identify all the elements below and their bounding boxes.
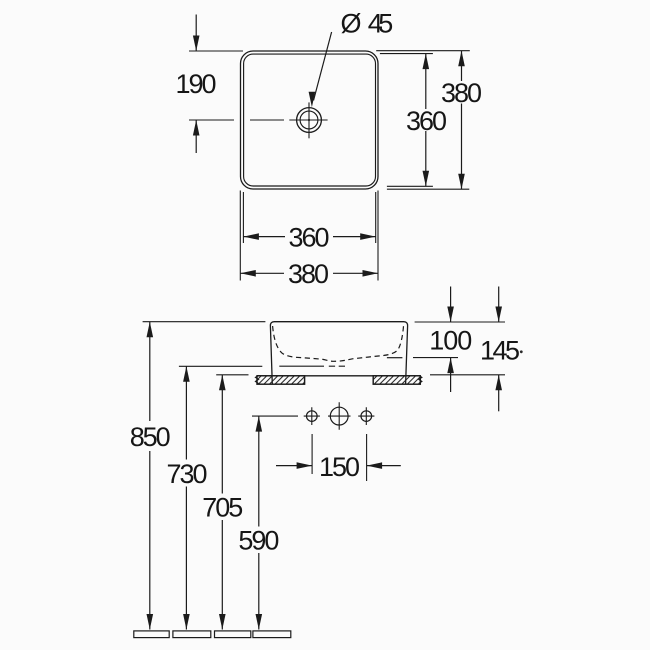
dim 705 bottom arrowhead [219, 614, 226, 630]
tap hole crosshair horizontal [289, 119, 327, 121]
dim 150 left arrow shaft [276, 465, 312, 467]
dim 100 lower arrow shaft [450, 358, 452, 392]
leader arrowhead at tap hole [309, 92, 316, 108]
floor line bar 4 [253, 631, 291, 638]
bottom dims: right-outer extension line [377, 191, 379, 281]
floor line bar 3 [215, 631, 251, 638]
dim 145 upper arrow shaft [498, 287, 500, 323]
countertop right cross-section (hatched) [373, 376, 420, 384]
basin base edge dashes (center) [329, 365, 346, 367]
dim 360 vertical line upper segment [425, 54, 427, 109]
dim 380 bottom left arrowhead [240, 270, 256, 277]
dim 100 lower extension line [413, 357, 458, 359]
right dims: inner-top extension line [380, 53, 433, 55]
countertop level right extension line [430, 374, 505, 376]
basin outer rim (380 square) [241, 51, 379, 189]
dim 100 upper arrowhead [447, 307, 454, 323]
bottom dims: left-inner extension line [242, 192, 244, 243]
svg-text:360: 360 [406, 106, 447, 136]
svg-text:45: 45 [368, 9, 394, 39]
bottom dims: left-outer extension line [239, 191, 241, 281]
dim 360 bottom: left segment [243, 236, 285, 238]
dim 100 lower arrowhead [447, 358, 454, 374]
speck after 145 [520, 350, 523, 353]
dim 730 extension line [179, 365, 262, 367]
dim 150 right extension line [366, 434, 368, 481]
dim 360 bottom right arrowhead [360, 233, 376, 240]
dim 380 bottom: left segment [240, 272, 284, 274]
dim 590 line lower segment [258, 553, 260, 630]
tap hole outer circle [297, 108, 322, 133]
svg-text:380: 380 [441, 78, 482, 108]
svg-text:850: 850 [130, 422, 171, 452]
left fixing hole [307, 411, 318, 422]
tap hole center dot [308, 119, 310, 121]
right dims: inner-bottom extension line [387, 185, 433, 187]
countertop left break mark [256, 375, 259, 383]
dim 850 top extension line [143, 321, 266, 323]
dim 850 line lower segment [149, 451, 151, 630]
dim 730 line lower segment [185, 487, 187, 630]
dim 380 bottom arrowhead [458, 174, 465, 190]
dim 360 top arrowhead [423, 54, 430, 70]
dim 190 upper arrow shaft [195, 15, 197, 52]
basin profile outline [270, 322, 407, 385]
dim 730 top arrowhead [183, 366, 190, 382]
right dims: outer-top extension line [376, 50, 470, 52]
dim 150 left extension line [311, 434, 313, 474]
middle fixing hole [330, 407, 348, 425]
centerline segment left of tap hole [250, 119, 284, 121]
floor line bar 1 [134, 631, 169, 638]
dim 590 top arrowhead [256, 416, 263, 432]
left fixing hole crosshair [304, 407, 320, 425]
fixing holes centerline [252, 415, 298, 417]
svg-text:380: 380 [288, 259, 329, 289]
dim 380 bottom right arrowhead [363, 270, 379, 277]
dim 360 bottom left arrowhead [243, 233, 259, 240]
svg-text:Ø: Ø [340, 9, 361, 39]
dim 850 top arrowhead [147, 322, 154, 338]
tap hole crosshair vertical [308, 102, 310, 138]
right dims: outer-bottom extension line [387, 188, 469, 190]
dim 190 lower arrow shaft [195, 120, 197, 153]
dim 380 top arrowhead [458, 51, 465, 66]
dim 705 line lower segment [221, 520, 223, 630]
dim 730 line upper segment [185, 366, 187, 459]
bottom dims: right-inner extension line [375, 192, 377, 243]
dim 360 vertical line lower segment [425, 131, 427, 186]
dim 705 line upper segment [221, 375, 223, 494]
dim 360 bottom: right segment [333, 236, 376, 238]
basin inner bowl hidden line (dashed) [273, 326, 404, 361]
svg-text:190: 190 [176, 69, 217, 99]
dim 590 line upper segment [258, 416, 260, 526]
svg-text:145: 145 [480, 335, 520, 365]
svg-text:590: 590 [238, 525, 279, 555]
dim 190 lower extension line [189, 119, 234, 121]
dim 380 vertical line upper segment [461, 51, 463, 81]
floor line bar 2 [173, 631, 211, 638]
svg-text:705: 705 [202, 492, 243, 522]
tap hole inner circle [300, 111, 318, 129]
right fixing hole [361, 411, 372, 422]
basin top right extension line [415, 321, 505, 323]
dim 100 upper arrow shaft [450, 287, 452, 323]
basin inner rim (360 square) [244, 54, 376, 186]
dim 190 upper arrowhead [193, 36, 200, 52]
dim 190 lower arrowhead [193, 120, 200, 136]
dim 730 bottom arrowhead [183, 614, 190, 630]
dim 850 bottom arrowhead [147, 614, 154, 630]
dim 150 left arrowhead [297, 462, 313, 469]
dim 150 right arrowhead [367, 462, 383, 469]
dim 590 bottom arrowhead [256, 614, 263, 630]
svg-text:150: 150 [319, 452, 360, 482]
svg-text:100: 100 [429, 325, 472, 355]
dim 150 right arrow shaft [367, 465, 401, 467]
dim 705 extension line [216, 374, 248, 376]
svg-text:360: 360 [289, 223, 330, 253]
dim 705 top arrowhead [219, 375, 226, 391]
dim 380 bottom: right segment [333, 272, 378, 274]
middle fixing hole crosshair [328, 402, 351, 430]
countertop left cross-section (hatched) [257, 376, 305, 384]
svg-text:730: 730 [167, 459, 208, 489]
dim 360 bottom arrowhead [423, 171, 430, 187]
dim 145 lower arrow shaft [498, 375, 500, 412]
countertop surface line [257, 375, 420, 377]
dim 850 line upper segment [149, 322, 151, 421]
leader line from label O45 to tap hole [314, 32, 332, 101]
dim 190 top extension line [189, 50, 243, 52]
dim 145 lower arrowhead [495, 375, 502, 391]
right fixing hole crosshair [358, 407, 374, 425]
basin base edge solid line (right) [387, 357, 403, 359]
basin base edge solid line (left) [279, 365, 324, 367]
countertop right break mark [419, 375, 422, 383]
dim 380 vertical line lower segment [461, 104, 463, 190]
dim 145 upper arrowhead [495, 307, 502, 323]
